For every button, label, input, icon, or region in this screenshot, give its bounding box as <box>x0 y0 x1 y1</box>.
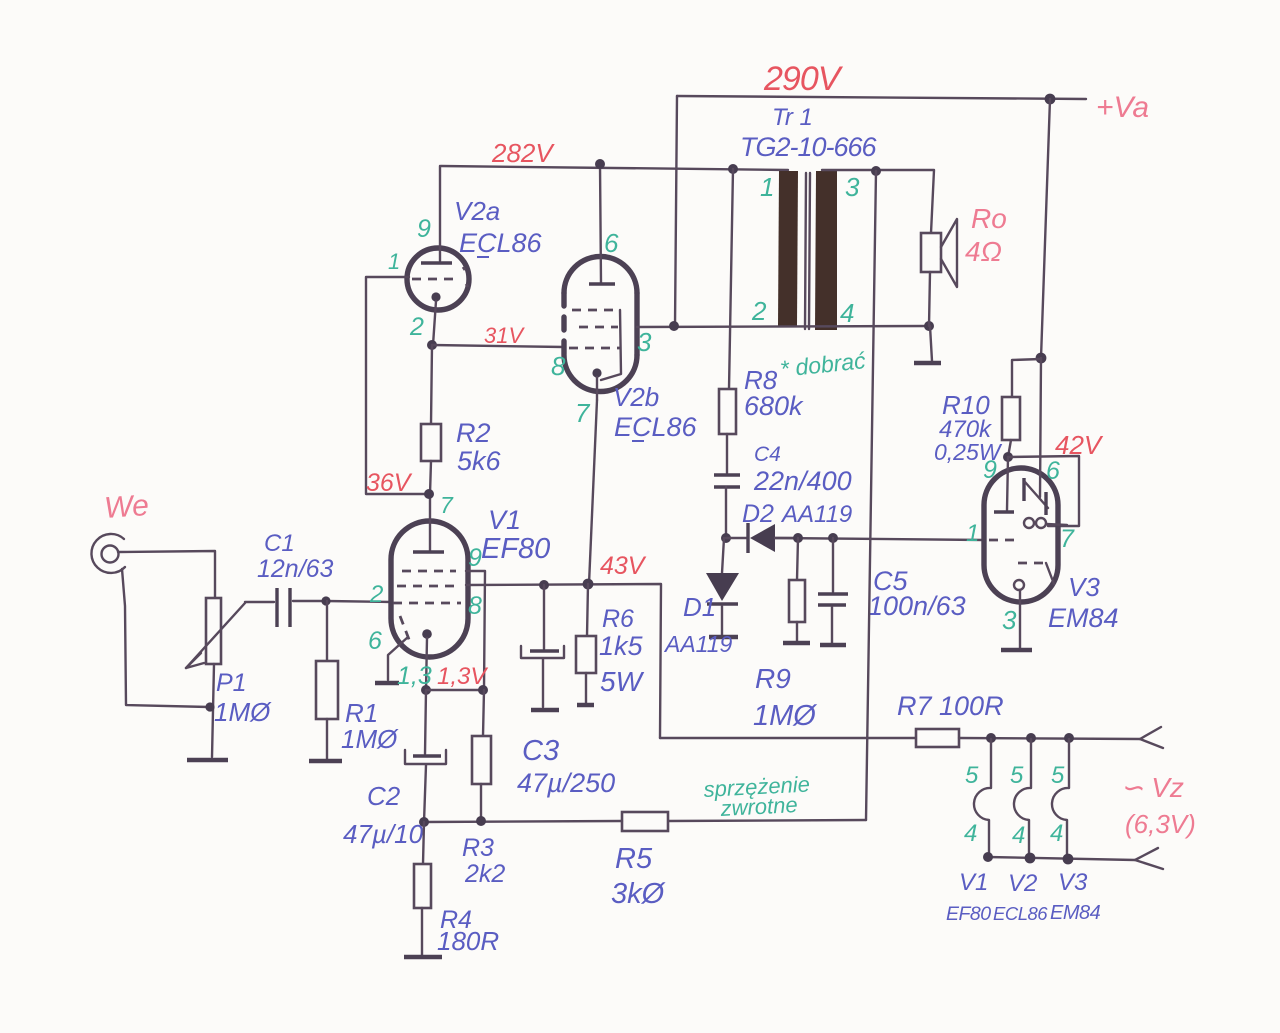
V1 anode lead pin 7 <box>413 494 444 552</box>
svg-text:8: 8 <box>468 592 482 620</box>
junction C2 bottom R4 <box>419 817 429 827</box>
svg-text:5k6: 5k6 <box>457 446 502 476</box>
junction R10 EM84 pin9 <box>1003 452 1013 462</box>
svg-text:9: 9 <box>417 215 431 243</box>
wire V2b cathode down to 43V node <box>589 400 597 584</box>
svg-text:P1: P1 <box>216 669 247 697</box>
svg-text:V2b: V2b <box>613 382 659 412</box>
svg-text:2: 2 <box>751 296 767 326</box>
junction speaker bottom <box>924 321 934 331</box>
svg-text:EF80: EF80 <box>946 903 991 925</box>
junction heater V3 bottom <box>1063 854 1074 865</box>
resistor R10 <box>1002 359 1041 457</box>
junction R6 top <box>583 579 594 590</box>
V2b cathode <box>592 368 601 400</box>
junction +Va top <box>1045 94 1056 105</box>
junction 36V node <box>424 489 434 499</box>
svg-text:1MØ: 1MØ <box>753 700 817 732</box>
diode D1 <box>706 538 739 636</box>
svg-text:We: We <box>103 489 150 525</box>
svg-text:1: 1 <box>760 172 774 202</box>
ground below R6 <box>577 703 594 707</box>
junction P1 bottom <box>205 702 214 711</box>
heater V1 <box>974 739 991 857</box>
wire transformer bottom / screen feed <box>637 326 929 327</box>
svg-text:V1: V1 <box>959 869 988 896</box>
V1 suppressor g3 lead pin 6 <box>388 616 410 680</box>
ground below R4 <box>404 955 442 959</box>
junction V2a cathode 31V node <box>427 340 437 350</box>
wire jack to P1 top <box>118 551 215 598</box>
junction +Va to R10 <box>1036 353 1047 364</box>
svg-text:R3: R3 <box>462 834 494 862</box>
junction heater V2 top <box>1026 733 1036 743</box>
ground stub below speaker junction <box>930 326 932 361</box>
ground below C5 <box>820 643 846 647</box>
ground below V1 g3 <box>375 681 399 685</box>
svg-text:ECL86: ECL86 <box>993 903 1048 924</box>
capacitor C3 <box>521 585 564 707</box>
junction V1 cathode right <box>478 685 488 695</box>
tube V2b pentode envelope <box>564 257 637 392</box>
svg-text:+Va: +Va <box>1096 91 1149 124</box>
svg-text:C4: C4 <box>754 443 781 466</box>
wire 43V node <box>466 584 661 738</box>
ground below R1 <box>309 759 342 763</box>
svg-text:4: 4 <box>1012 822 1025 849</box>
svg-text:V2: V2 <box>1008 870 1037 897</box>
svg-text:V2a: V2a <box>454 196 500 226</box>
resistor R5 <box>424 812 866 831</box>
resistor R6 <box>576 584 596 703</box>
svg-text:∽ Vz: ∽ Vz <box>1120 772 1184 803</box>
svg-text:4Ω: 4Ω <box>965 236 1002 267</box>
ground below C3 <box>531 708 559 712</box>
ground below P1 <box>187 758 228 762</box>
svg-text:7: 7 <box>1060 525 1075 553</box>
svg-text:680k: 680k <box>744 391 804 421</box>
wire 290V down to primary <box>675 96 677 326</box>
svg-text:6: 6 <box>1046 457 1060 485</box>
junction secondary top feedback <box>871 166 881 176</box>
svg-text:AA119: AA119 <box>780 501 852 528</box>
svg-text:47µ/10: 47µ/10 <box>343 819 424 849</box>
resistor R2 <box>421 345 441 494</box>
type ECL86 of V2a <box>459 228 543 258</box>
junction R3 bottom <box>476 816 486 826</box>
svg-text:R9: R9 <box>755 663 791 694</box>
svg-text:2: 2 <box>409 313 424 341</box>
capacitor C2 <box>405 690 446 822</box>
ground below V3 <box>1001 648 1032 652</box>
svg-text:R7 100R: R7 100R <box>897 691 1004 721</box>
transformer core <box>805 173 810 329</box>
V1 screen dashed <box>397 585 459 588</box>
svg-text:1MØ: 1MØ <box>214 697 272 727</box>
input jack J1 <box>91 534 125 573</box>
svg-text:47µ/250: 47µ/250 <box>517 768 615 798</box>
ground below speaker <box>914 361 941 365</box>
svg-text:1: 1 <box>966 520 979 547</box>
svg-text:EM84: EM84 <box>1050 902 1101 924</box>
svg-text:EF80: EF80 <box>481 533 550 565</box>
ground below D1 <box>709 635 738 639</box>
svg-text:(6,3V): (6,3V) <box>1125 809 1196 839</box>
svg-text:6: 6 <box>604 228 619 258</box>
ground below R9 <box>783 641 810 645</box>
wire 31V to V2b grid <box>432 345 564 347</box>
svg-text:V3: V3 <box>1058 869 1088 896</box>
capacitor C4 <box>714 475 740 538</box>
wire 290V top rail <box>677 96 1086 99</box>
svg-text:3: 3 <box>637 327 652 357</box>
junction V1 cathode left <box>421 685 431 695</box>
heater V2 <box>1014 739 1031 858</box>
svg-text:22n/400: 22n/400 <box>753 466 852 496</box>
tube V2a triode envelope <box>407 248 469 310</box>
wire +Va into V3 pin 6 <box>1040 358 1041 497</box>
V2b grid g1 dashed <box>569 347 621 350</box>
V1 cathode <box>422 629 432 690</box>
tube V3 EM84 envelope <box>984 468 1058 602</box>
resistor R3 <box>472 690 491 821</box>
junction heater V3 top <box>1064 733 1074 743</box>
svg-text:9: 9 <box>468 544 482 572</box>
V2b screen dashed <box>579 326 618 329</box>
svg-text:Tr 1: Tr 1 <box>772 104 813 131</box>
capacitor C5 <box>818 538 848 643</box>
svg-text:ECL86: ECL86 <box>614 412 698 442</box>
junction heater V1 top <box>986 733 996 743</box>
junction R9 top <box>793 533 803 543</box>
svg-text:5W: 5W <box>600 666 645 697</box>
tube V1 EF80 envelope <box>391 521 468 657</box>
svg-text:36V: 36V <box>366 469 413 497</box>
V2a anode lead pin 9 <box>421 166 452 263</box>
svg-text:Ro: Ro <box>971 203 1007 234</box>
svg-text:31V: 31V <box>484 323 525 348</box>
transformer Tr1 primary winding <box>778 171 798 326</box>
junction 282V at V2b anode <box>595 159 605 169</box>
svg-text:D1: D1 <box>683 592 716 622</box>
wire cathode node <box>426 689 483 691</box>
wire heater bottom bus <box>987 857 1135 860</box>
transformer Tr1 secondary winding <box>815 171 837 330</box>
V3 grid g1 dashed pin 1 <box>989 539 1018 542</box>
svg-text:100n/63: 100n/63 <box>868 591 966 621</box>
diode D2 <box>726 523 798 553</box>
junction heater V1 bottom <box>983 852 993 862</box>
junction 282V at R8 <box>728 164 738 174</box>
svg-text:4: 4 <box>840 298 854 328</box>
svg-text:180R: 180R <box>437 926 499 956</box>
connector heater bottom <box>1135 848 1163 869</box>
svg-text:R2: R2 <box>456 418 491 448</box>
junction heater V2 bottom <box>1025 853 1036 864</box>
speaker Ro <box>921 219 957 326</box>
wire V2a grid wrap to 36V node <box>366 277 429 494</box>
svg-text:43V: 43V <box>600 552 647 580</box>
wire jack shell down to P1 bottom <box>122 569 209 707</box>
svg-text:282V: 282V <box>491 138 555 168</box>
svg-text:42V: 42V <box>1055 430 1104 460</box>
svg-text:7: 7 <box>575 398 591 428</box>
V3 cathode <box>1014 580 1024 648</box>
resistor R9 <box>789 538 805 641</box>
V3 target electrode <box>1024 478 1048 515</box>
svg-text:3: 3 <box>1002 605 1017 635</box>
svg-text:9: 9 <box>983 456 997 484</box>
svg-text:290V: 290V <box>763 60 844 98</box>
wire +Va rail down <box>1041 99 1050 358</box>
resistor R1 <box>316 601 338 759</box>
resistor R4 <box>414 822 431 955</box>
junction C3 top <box>539 580 549 590</box>
V3 indicator electrodes oo <box>1024 518 1067 528</box>
type ECL86 of V2b <box>614 412 698 442</box>
svg-text:1k5: 1k5 <box>599 631 644 661</box>
wire secondary top to speaker <box>822 170 934 233</box>
svg-text:R6: R6 <box>602 605 634 633</box>
svg-text:ECL86: ECL86 <box>459 228 543 258</box>
wire feedback vertical <box>866 171 876 820</box>
svg-text:8: 8 <box>551 351 566 381</box>
junction C1 R1 <box>321 596 330 605</box>
potentiometer P1 <box>186 598 245 757</box>
V2a cathode <box>431 292 440 345</box>
wire 282V rail <box>441 166 788 170</box>
V1 screen step wire pin 9 <box>466 571 485 690</box>
V3 grid plate lead pin 9 <box>994 457 1014 512</box>
resistor R7 <box>660 729 1140 747</box>
svg-text:4: 4 <box>964 820 977 847</box>
svg-text:12n/63: 12n/63 <box>257 555 334 583</box>
V1 grid g2 dashed <box>402 570 456 573</box>
svg-text:3: 3 <box>845 172 860 202</box>
svg-text:2k2: 2k2 <box>464 860 505 888</box>
junction C5 top <box>828 533 838 543</box>
svg-text:zwrotne: zwrotne <box>719 792 798 821</box>
wire detector node to EM84 grid <box>775 538 984 540</box>
svg-text:2: 2 <box>369 581 383 608</box>
svg-text:AA119: AA119 <box>663 631 733 657</box>
svg-text:3kØ: 3kØ <box>611 878 666 910</box>
svg-text:1: 1 <box>388 249 400 274</box>
svg-text:5: 5 <box>965 762 979 789</box>
svg-text:C3: C3 <box>522 735 559 767</box>
svg-text:R5: R5 <box>615 843 653 875</box>
svg-text:C2: C2 <box>367 781 401 811</box>
connector heater top <box>1140 727 1163 748</box>
svg-text:6: 6 <box>368 627 382 655</box>
svg-text:EM84: EM84 <box>1048 603 1119 633</box>
wire 42V loop to pin 7 <box>1008 456 1079 526</box>
svg-text:V1: V1 <box>488 505 521 535</box>
svg-text:4: 4 <box>1050 820 1063 847</box>
junction 290V primary bottom <box>669 321 679 331</box>
svg-text:V3: V3 <box>1068 572 1100 602</box>
V2a grid dashed pin 1 <box>412 267 468 287</box>
svg-text:TG2-10-666: TG2-10-666 <box>740 132 878 162</box>
svg-text:1,3V: 1,3V <box>437 663 488 690</box>
junction D1 D2 C4 <box>721 533 731 543</box>
svg-text:D2: D2 <box>742 500 774 528</box>
svg-text:7: 7 <box>440 492 454 518</box>
V3 deflection dashed <box>1018 563 1054 584</box>
capacitor C1 <box>245 588 326 627</box>
resistor R8 <box>719 169 736 473</box>
V1 grid g1 dashed <box>393 602 461 605</box>
heater V3 <box>1052 739 1069 859</box>
svg-text:5: 5 <box>1051 762 1065 789</box>
svg-text:1MØ: 1MØ <box>341 724 399 754</box>
svg-text:5: 5 <box>1010 762 1024 789</box>
svg-text:C1: C1 <box>264 530 295 557</box>
wire C1 to V1 grid pin 2 <box>326 601 391 602</box>
V2b anode lead pin 6 <box>589 164 615 284</box>
V2b grid g3 dashed with cathode tie <box>572 310 621 380</box>
